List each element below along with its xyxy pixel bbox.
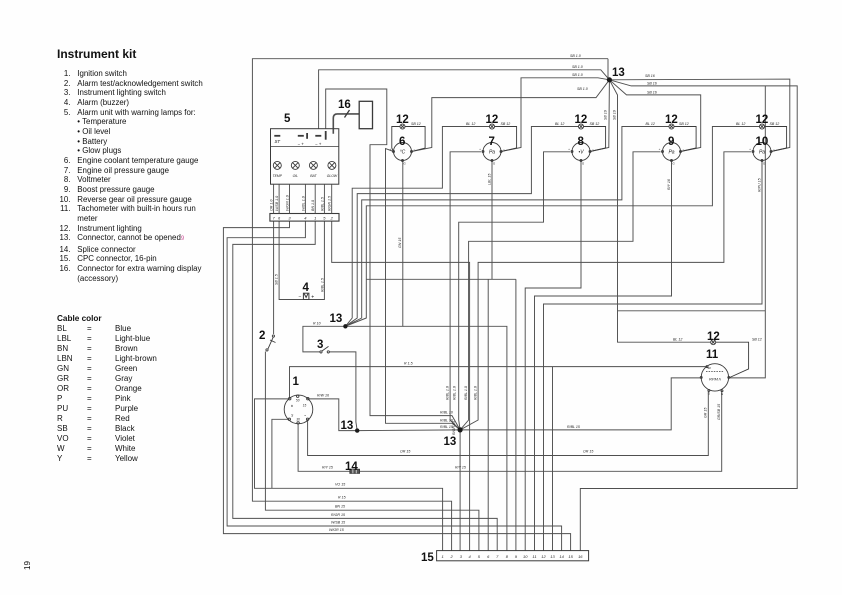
svg-text:R/BL 15: R/BL 15: [567, 425, 580, 429]
svg-text:W/SB 15: W/SB 15: [331, 521, 345, 525]
svg-text:30: 30: [296, 418, 300, 422]
CPC connector 15: [437, 551, 589, 561]
svg-text:30: 30: [707, 366, 711, 370]
svg-text:R/GN 1.5: R/GN 1.5: [328, 196, 332, 211]
svg-text:OR 15: OR 15: [583, 450, 593, 454]
wire lighting net from left 13 to lamp of gauge 7: [345, 127, 489, 327]
wire SB ground bus: top-left outer loop from junction 13 to connector pin 2: [252, 59, 608, 551]
wire SB 16 branch to tachometer minus: [729, 86, 766, 378]
tachometer 11 with lamp 12: [700, 340, 748, 392]
svg-text:12: 12: [486, 114, 499, 126]
switch 3: [320, 346, 330, 353]
svg-text:R/PU 15: R/PU 15: [757, 178, 761, 192]
svg-text:9: 9: [668, 136, 674, 148]
wire SB gauge 7 minus to junction 13: [501, 78, 609, 152]
wire top 13 corner drop: [607, 59, 609, 80]
wire pins from alarm unit to strip: [273, 184, 275, 213]
svg-text:+: +: [568, 147, 570, 151]
terminal strip under alarm unit: [270, 214, 339, 222]
svg-text:3: 3: [460, 554, 463, 559]
svg-text:G: G: [403, 162, 406, 166]
svg-text:−: −: [299, 294, 302, 300]
wire connector pin 3 from right 13: [459, 430, 461, 551]
svg-text:G: G: [493, 162, 496, 166]
svg-text:1: 1: [314, 216, 316, 221]
gauge 6 engine coolant temperature with lamp 12: [392, 124, 425, 162]
svg-text:•V: •V: [578, 150, 584, 156]
svg-text:W/SB 1.0: W/SB 1.0: [275, 196, 279, 211]
wire SB 16 junction 13 to gauge 9 minus: [609, 80, 700, 152]
wire R/W 16 ignition switch to mid 13: [309, 399, 357, 431]
svg-text:RPM h: RPM h: [709, 377, 722, 382]
svg-text:5: 5: [478, 554, 481, 559]
wire W/SB 15 strip to connector pin 14: [227, 221, 561, 550]
wire VO spur from S terminal: [272, 419, 289, 488]
svg-text:SB 12: SB 12: [590, 122, 600, 126]
svg-text:R/Y 15: R/Y 15: [455, 465, 466, 469]
svg-text:12: 12: [665, 114, 678, 126]
wire lighting net from left 13 to lamp of gauge 10: [345, 127, 759, 327]
svg-text:6: 6: [399, 136, 405, 148]
switch 2: [266, 335, 276, 351]
svg-text:3: 3: [288, 216, 291, 221]
svg-text:OIL: OIL: [293, 174, 299, 178]
svg-text:6: 6: [487, 554, 490, 559]
svg-text:12: 12: [575, 114, 588, 126]
svg-text:13: 13: [330, 313, 343, 325]
svg-text:SB 12: SB 12: [770, 122, 780, 126]
title: [57, 47, 136, 61]
svg-text:SB 16: SB 16: [645, 74, 655, 78]
svg-text:SB 1.0: SB 1.0: [570, 54, 581, 58]
svg-text:SB 1.0: SB 1.0: [577, 87, 588, 91]
svg-text:S: S: [291, 414, 294, 418]
svg-text:4: 4: [303, 282, 310, 294]
svg-text:1: 1: [441, 554, 443, 559]
svg-text:10: 10: [523, 554, 528, 559]
svg-text:11: 11: [532, 554, 536, 559]
node 13 left: [343, 324, 347, 328]
alarm unit 5: [271, 129, 339, 185]
svg-text:16: 16: [338, 99, 351, 111]
wire SB gauge 6 minus to junction 13: [412, 80, 610, 152]
warning lamp GLOW: [328, 161, 336, 169]
svg-text:R/BL 10: R/BL 10: [440, 411, 453, 415]
svg-text:R 10: R 10: [313, 322, 321, 326]
svg-text:13: 13: [444, 436, 457, 448]
svg-text:13: 13: [612, 67, 625, 79]
wire R/BL 10 riser b feeding gauge 6 plus: [386, 149, 461, 430]
gauge 9 boost pressure with lamp 12: [662, 124, 697, 162]
wire SB 16 junction 13 to gauge 10 minus: [609, 79, 789, 151]
svg-text:2: 2: [259, 330, 265, 342]
page number: [23, 561, 32, 570]
svg-text:−: −: [592, 147, 594, 151]
svg-text:R/BL 1.5: R/BL 1.5: [320, 278, 324, 292]
svg-text:5: 5: [323, 216, 326, 221]
svg-text:OR 15: OR 15: [400, 450, 410, 454]
svg-text:GR/SB 15: GR/SB 15: [717, 404, 721, 420]
rotated wire labels: [270, 110, 762, 435]
wire R/PU 15 gauge 10 sender to connector pin 12: [544, 161, 763, 551]
svg-text:SB 1.0: SB 1.0: [572, 65, 583, 69]
svg-text:4: 4: [468, 554, 471, 559]
svg-text:R/BL 1.0: R/BL 1.0: [464, 386, 468, 400]
buzzer 4: [303, 293, 309, 299]
svg-text:Pa: Pa: [489, 150, 495, 156]
svg-text:5: 5: [284, 113, 291, 125]
svg-text:12: 12: [541, 554, 546, 559]
svg-text:R/BL 1.0: R/BL 1.0: [446, 386, 450, 400]
svg-text:8: 8: [578, 136, 585, 148]
svg-text:−: −: [683, 147, 685, 151]
svg-text:G: G: [721, 392, 724, 396]
wire VO 15 ignition switch to connector pin 1: [255, 399, 443, 551]
junction dots: [343, 77, 612, 433]
wire from switch 3 to mid junction 13: [329, 352, 357, 431]
svg-text:Pa: Pa: [668, 150, 674, 156]
svg-text:VO 15: VO 15: [335, 483, 345, 487]
svg-text:7: 7: [489, 136, 495, 148]
svg-text:R/GR 15: R/GR 15: [452, 421, 456, 435]
wire W/BL from strip pin 2 to connector pin 4: [332, 221, 470, 550]
svg-text:10: 10: [756, 136, 769, 148]
warning lamp OIL: [291, 161, 299, 169]
svg-text:R/Y 16: R/Y 16: [667, 179, 671, 190]
wire lighting net from left 13 to lamp of gauge 9: [345, 127, 669, 327]
gauge 10 reverse gear oil pressure with lamp 12: [752, 124, 787, 162]
wire R/BL feed right 13 up to gauge 9 plus: [460, 152, 660, 430]
svg-text:+: +: [659, 147, 661, 151]
svg-text:−: −: [773, 147, 775, 151]
node 13 top: [607, 77, 612, 82]
svg-text:13: 13: [550, 554, 555, 559]
wire BN 15 switch 2 to connector pin 5: [273, 221, 275, 334]
svg-text:G: G: [708, 392, 711, 396]
svg-text:BL 12: BL 12: [736, 122, 745, 126]
wire buzzer loop strip pin 6 to pin 5: [279, 221, 303, 299]
svg-text:SB 12: SB 12: [679, 122, 689, 126]
svg-text:15: 15: [303, 404, 307, 408]
svg-text:GR 15: GR 15: [704, 408, 708, 418]
wire LBL 15 gauge 7 sender to connector pin 6: [491, 161, 493, 279]
svg-text:SB 12: SB 12: [752, 338, 762, 342]
splice connector 14: [350, 469, 360, 473]
svg-text:+: +: [311, 294, 314, 300]
svg-text:R/BL 10: R/BL 10: [440, 419, 453, 423]
svg-text:SB 16: SB 16: [647, 91, 657, 95]
svg-text:BN 1.0: BN 1.0: [311, 200, 315, 211]
svg-text:12: 12: [756, 114, 769, 126]
svg-text:SB 12: SB 12: [501, 122, 511, 126]
svg-text:SB 16: SB 16: [647, 82, 657, 86]
svg-text:GLOW: GLOW: [327, 174, 338, 178]
svg-text:LBL 15: LBL 15: [487, 174, 491, 185]
wire R/Y 15 ignition switch through splice 14 to tachometer sender: [298, 424, 350, 472]
svg-text:Pa: Pa: [759, 150, 765, 156]
svg-text:GN 15: GN 15: [398, 238, 402, 248]
svg-text:SB 1.5: SB 1.5: [275, 274, 279, 285]
svg-text:15: 15: [568, 554, 573, 559]
svg-text:12: 12: [707, 331, 720, 343]
svg-text:BL 12: BL 12: [555, 122, 564, 126]
svg-text:BL 12: BL 12: [673, 338, 682, 342]
svg-text:°C: °C: [400, 150, 406, 156]
svg-text:+: +: [479, 147, 481, 151]
svg-text:R/Y 15: R/Y 15: [322, 465, 333, 469]
svg-text:R/W 16: R/W 16: [317, 394, 329, 398]
wire R 10 from left 13 through switch 3 down to mid 13: [303, 326, 346, 352]
svg-text:12: 12: [396, 114, 409, 126]
svg-text:SB 1.0: SB 1.0: [572, 73, 583, 77]
gauge symbols text: [400, 150, 766, 382]
svg-text:R/BL 15: R/BL 15: [440, 425, 453, 429]
svg-text:SB 12: SB 12: [411, 122, 421, 126]
wire connector 16 from box 5 to display connector: [333, 114, 359, 134]
svg-text:BAT: BAT: [310, 174, 317, 178]
svg-text:− +: − +: [298, 142, 305, 147]
svg-text:BL 12: BL 12: [466, 122, 475, 126]
svg-text:6: 6: [278, 216, 281, 221]
wire lighting net from left 13 to lamp of gauge 8: [345, 127, 578, 327]
svg-text:13: 13: [341, 420, 354, 432]
svg-text:•: •: [304, 414, 306, 418]
svg-text:14: 14: [559, 554, 564, 559]
svg-text:−: −: [503, 147, 505, 151]
wire gauge 8 sender to connector pin 10: [525, 161, 581, 551]
svg-text:4: 4: [304, 216, 307, 221]
svg-text:G: G: [582, 162, 585, 166]
svg-text:− +: − +: [315, 142, 322, 147]
svg-text:8: 8: [506, 554, 509, 559]
svg-text:50: 50: [296, 399, 300, 403]
svg-text:7: 7: [272, 216, 275, 221]
svg-text:3: 3: [317, 339, 323, 351]
wire W/GR 15 strip to connector pin 15: [223, 221, 570, 550]
wire R/BL 15 mid 13 to right 13 to tachometer plus: [357, 378, 702, 431]
svg-text:R/BL 1.0: R/BL 1.0: [474, 386, 478, 400]
wire R/BL power from alarm unit down to right junction 13: [326, 89, 460, 430]
wire GN 15 gauge 6 sender to connector pin 8: [345, 161, 402, 326]
wire R/BL feed right 13 up to gauge 10 plus: [460, 152, 751, 430]
svg-text:W/GN 1.0: W/GN 1.0: [286, 195, 290, 211]
svg-text:16: 16: [578, 554, 583, 559]
svg-text:+: +: [749, 147, 751, 151]
svg-text:▲: ▲: [290, 404, 293, 408]
svg-text:R/BL 1.0: R/BL 1.0: [452, 386, 456, 400]
svg-text:15: 15: [421, 552, 434, 564]
svg-text:W/BL 1.0: W/BL 1.0: [301, 196, 305, 211]
wire R/BL feed right 13 up to gauge 7 plus: [450, 152, 481, 430]
svg-text:R 1.5: R 1.5: [404, 362, 413, 366]
gauge 8 voltmeter with lamp 12: [571, 124, 606, 162]
warning lamp BAT: [309, 161, 317, 169]
connector 16 box: [345, 101, 373, 128]
wire R/Y 16 gauge 9 sender to connector pin 11: [535, 161, 672, 551]
svg-text:BN 15: BN 15: [335, 505, 345, 509]
svg-text:14: 14: [345, 461, 358, 473]
node 13 mid: [355, 428, 359, 432]
wire R/BL feed right 13 up to gauge 8 plus: [459, 152, 570, 430]
svg-text:2: 2: [449, 554, 453, 559]
svg-text:R/BL 1.5: R/BL 1.5: [320, 197, 324, 211]
warning lamp TEMP: [273, 161, 336, 169]
svg-text:+: +: [390, 147, 392, 151]
svg-text:G: G: [672, 162, 675, 166]
node 13 right: [458, 427, 463, 432]
wire SB junction 13 down to tachometer lamp loop: [609, 80, 710, 342]
svg-text:7: 7: [496, 554, 499, 559]
svg-text:ST: ST: [275, 139, 281, 144]
wire labels: [313, 54, 779, 532]
svg-text:2: 2: [330, 216, 334, 221]
ignition switch 1: [284, 395, 313, 424]
svg-text:1: 1: [293, 376, 300, 388]
svg-text:SB 10: SB 10: [604, 110, 608, 120]
cable color legend: [57, 314, 157, 465]
svg-text:TEMP: TEMP: [273, 174, 283, 178]
svg-text:−: −: [414, 147, 416, 151]
svg-text:R/GR 15: R/GR 15: [331, 513, 345, 517]
wire R 1.5 from ignition switch to connector pin 13: [290, 367, 708, 399]
wire OR 15 ignition switch to tachometer sender GR: [308, 390, 709, 455]
svg-text:OR 1.0: OR 1.0: [270, 200, 274, 211]
bold number labels: [259, 67, 768, 564]
wire connector pin 9 riser: [515, 279, 517, 550]
svg-text:R 15: R 15: [338, 496, 346, 500]
wire SB junction 13 down to gauge 8 minus: [590, 80, 609, 152]
parts list: [57, 69, 203, 283]
svg-text:9: 9: [515, 554, 518, 559]
svg-text:SB 10: SB 10: [613, 110, 617, 120]
gauge 7 oil pressure with lamp 12: [482, 124, 517, 162]
wire SB 16 loop junction 13 to connector pin 16: [580, 80, 797, 551]
svg-text:BL 12: BL 12: [646, 122, 655, 126]
wire R/GR 15 strip to connector pin 7: [233, 221, 497, 550]
svg-text:W/GR 15: W/GR 15: [329, 528, 344, 532]
wire SB from alarm unit terminal to junction 13: [319, 70, 610, 129]
svg-text:11: 11: [706, 349, 719, 361]
